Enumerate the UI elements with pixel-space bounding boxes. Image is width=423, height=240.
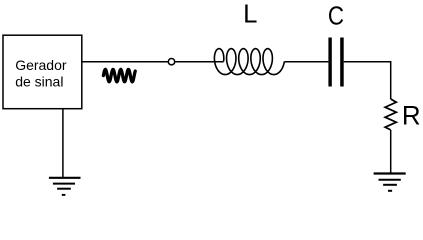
- left ground: [49, 178, 81, 195]
- node circle: [168, 59, 174, 65]
- wire node to inductor: [175, 61, 224, 63]
- right ground: [374, 174, 406, 191]
- inductor L coil: [214, 49, 284, 75]
- wire box to node: [82, 61, 168, 63]
- resistor R zigzag: [385, 99, 396, 130]
- svg-text:R: R: [402, 100, 421, 130]
- svg-text:Gerador: Gerador: [15, 57, 67, 73]
- capacitor C plate 2: [340, 38, 344, 87]
- capacitor C plate 1: [328, 38, 331, 87]
- svg-text:de sinal: de sinal: [15, 74, 63, 90]
- wire inductor to capacitor: [284, 61, 328, 63]
- wire resistor to ground: [390, 130, 392, 173]
- wire capacitor to corner: [344, 62, 391, 99]
- wire box to ground: [62, 109, 64, 177]
- generator box: [3, 35, 82, 109]
- svg-text:C: C: [328, 2, 344, 31]
- svg-text:L: L: [243, 0, 257, 28]
- source resistor squiggle (bold): [103, 69, 135, 81]
